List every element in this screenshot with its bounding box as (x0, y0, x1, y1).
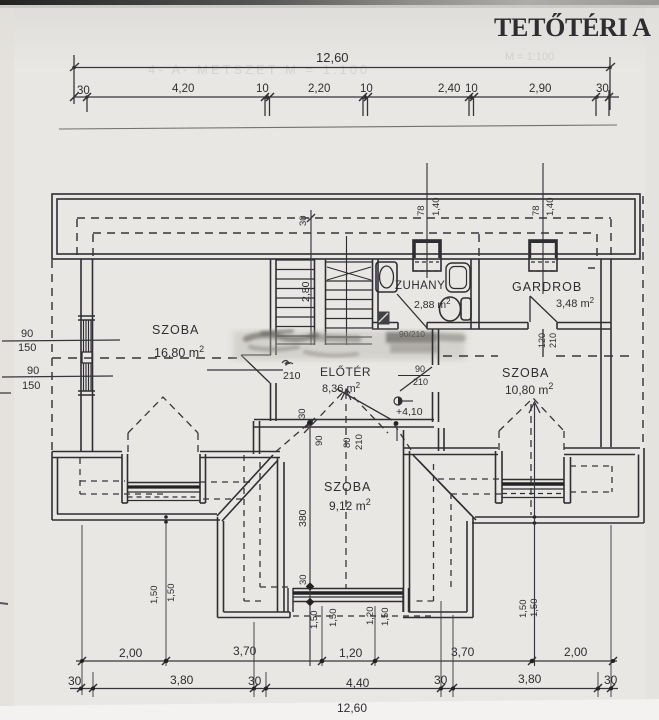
svg-text:1,50: 1,50 (149, 586, 160, 605)
sink (376, 262, 397, 292)
svg-text:90: 90 (21, 328, 33, 340)
floor drain square (378, 312, 390, 325)
svg-text:30: 30 (68, 674, 82, 688)
label 90/210 right door (413, 364, 428, 387)
svg-text:3,80: 3,80 (170, 673, 194, 687)
bottom dimension row 2 (70, 688, 618, 690)
svg-text:30: 30 (77, 85, 90, 97)
ghost erased text row (148, 51, 554, 77)
stray pencil line under dims (59, 125, 617, 129)
left dormer window stub left (122, 454, 128, 503)
top overall dimension line 12,60 (70, 55, 615, 110)
svg-text:1,40: 1,40 (545, 198, 556, 217)
svg-text:2,88 m2: 2,88 m2 (414, 297, 451, 311)
svg-text:78: 78 (416, 205, 427, 216)
right wing bottom wall (472, 517, 644, 523)
stairs center stringer (315, 259, 326, 345)
svg-text:210: 210 (283, 370, 301, 382)
bottom dimension row 1 (76, 660, 617, 662)
svg-text:80: 80 (342, 437, 353, 448)
center dormer window 440 hatched (293, 589, 433, 617)
center dormer bottom wall right (403, 612, 473, 618)
label 120/210 gardrob door (537, 333, 558, 348)
svg-text:2,00: 2,00 (119, 646, 143, 660)
room label ZUHANY 2,88 (395, 280, 451, 311)
svg-text:M = 1:100: M = 1:100 (505, 51, 554, 63)
svg-text:4,40: 4,40 (346, 676, 370, 690)
label 78/140 right roof window (531, 198, 556, 217)
smudge band over ELŐTÉR top (233, 331, 465, 360)
label 80 / 210 door SZOBA 9,12 (297, 408, 365, 450)
door SZOBA 16,80 lintel + leaf (241, 355, 271, 383)
svg-text:210: 210 (354, 434, 365, 450)
dimension line right with up arrow (529, 402, 540, 666)
ELŐTÉR bottom wall with door opening (254, 420, 434, 428)
corner wall below ELŐTÉR left (254, 421, 260, 454)
svg-text:30: 30 (604, 673, 618, 687)
dashed hip line from door right (394, 424, 413, 453)
stair dimension label 2,80 (300, 281, 312, 302)
stairs right flight treads (326, 236, 372, 345)
svg-text:2,00: 2,00 (564, 645, 588, 659)
center column right outer wall (467, 517, 473, 618)
label ~210 (283, 358, 301, 382)
small stray dash near gardrob (588, 267, 595, 269)
diagonal hip wall left (solid double) (217, 455, 278, 521)
left dormer window stub right (200, 454, 206, 503)
dashed eave lines right of right dormer (570, 466, 612, 492)
svg-text:2,80: 2,80 (300, 281, 312, 302)
diagonal hip wall right (solid double) (413, 455, 476, 520)
stair dimension tick 30 (298, 210, 315, 345)
top segment dimension line 30/4,20/10/2,20/10/2,40/10/2,90/30 (74, 90, 619, 116)
svg-text:+4,10: +4,10 (396, 406, 423, 418)
bathroom door leaf (397, 294, 427, 328)
svg-text:90: 90 (27, 365, 39, 377)
svg-text:30: 30 (297, 408, 308, 419)
left outer wall of SZOBA 16,80 with window (81, 259, 93, 452)
left wing top wall right part (200, 452, 280, 458)
svg-text:380: 380 (297, 509, 309, 527)
door leader line 210 (207, 369, 283, 371)
center dormer window stub left (288, 588, 293, 612)
junction dot ELŐTÉR wall (305, 418, 398, 441)
svg-text:78: 78 (531, 205, 542, 216)
window 90/150 in left wall (78, 316, 95, 395)
dashed headroom line SZOBA 16,80 (52, 357, 238, 359)
right dormer window stub left (496, 451, 503, 503)
svg-text:10: 10 (360, 83, 373, 95)
svg-text:30: 30 (434, 673, 448, 687)
wall under bath+gardrob with door gaps (372, 323, 611, 330)
right wing top wall right part (564, 448, 640, 455)
svg-text:8,36 m2: 8,36 m2 (322, 381, 361, 395)
ELŐTÉR squiggle mark (282, 361, 293, 366)
svg-text:ELŐTÉR: ELŐTÉR (320, 364, 371, 379)
center dormer inner left wall (278, 457, 285, 612)
svg-text:SZOBA: SZOBA (324, 480, 371, 494)
svg-text:TETŐTÉRI A: TETŐTÉRI A (494, 13, 651, 42)
height mark +4,10 (394, 397, 423, 418)
dashed roof peak over SZOBA 9,12 (304, 389, 388, 588)
rotated labels 1,50 right wing (518, 599, 540, 619)
svg-text:1,40: 1,40 (431, 198, 442, 217)
label 90/150 lower (22, 365, 40, 392)
dashed eave lines inside left wing (80, 458, 250, 499)
svg-text:SZOBA: SZOBA (152, 323, 199, 337)
center dormer bottom wall left (218, 612, 291, 618)
svg-text:9,12 m2: 9,12 m2 (329, 497, 371, 513)
label 78/140 left roof window (416, 198, 442, 217)
door SZOBA 10,80 leaf (398, 367, 432, 391)
extension line left wing outer (82, 524, 611, 697)
svg-text:30: 30 (596, 83, 609, 95)
left wing left wall (52, 452, 58, 521)
svg-text:90: 90 (314, 435, 325, 446)
svg-text:1,50: 1,50 (380, 608, 391, 627)
dashed headroom line SZOBA 10,80 (443, 355, 629, 357)
bottom white scan strip (0, 699, 659, 720)
svg-text:3,48 m2: 3,48 m2 (556, 296, 595, 310)
stairs direction cross (327, 267, 371, 280)
svg-text:1,20: 1,20 (365, 607, 376, 626)
right wing right wall (639, 448, 645, 523)
svg-text:2,90: 2,90 (529, 83, 551, 95)
svg-text:90: 90 (415, 364, 425, 374)
svg-text:150: 150 (22, 380, 40, 392)
svg-text:1,50: 1,50 (166, 584, 177, 603)
svg-text:GARDROB: GARDROB (512, 280, 582, 294)
dashed roof peak over left dormer (128, 397, 198, 452)
bottom overall label 12,60 (337, 701, 367, 715)
left wing bottom wall (52, 514, 220, 520)
dashed eave line right x643 (642, 196, 644, 445)
svg-text:10: 10 (256, 83, 269, 95)
svg-text:2,40: 2,40 (438, 83, 460, 95)
room label SZOBA 16,80 (152, 323, 204, 360)
dimension line 380 center with diamonds (309, 424, 311, 666)
divider wall ELŐTÉR / SZOBA 10,80 with door (433, 329, 439, 422)
svg-text:3,80: 3,80 (518, 672, 542, 686)
svg-text:SZOBA: SZOBA (502, 366, 549, 380)
left dormer window 150 hatched (128, 483, 201, 501)
svg-text:210: 210 (413, 377, 428, 387)
svg-text:150: 150 (18, 342, 36, 354)
leader line window dim lower (2, 376, 113, 377)
shower tray (446, 263, 470, 292)
label 90/150 upper (18, 328, 36, 354)
center dormer inner right wall (404, 430, 410, 612)
left wing top wall left part (52, 452, 122, 458)
dashed roof lines inside center column left (244, 455, 291, 601)
gardrob right wall (601, 259, 611, 447)
top dark scan edge (0, 0, 659, 5)
roof clearance dashed line 2 in band (93, 233, 597, 259)
roof window 1 (78/140) (413, 240, 441, 271)
svg-text:3,70: 3,70 (451, 645, 475, 659)
right dormer window stub right (564, 457, 571, 503)
svg-text:1,50: 1,50 (328, 609, 339, 628)
svg-text:12,60: 12,60 (316, 50, 349, 65)
room label SZOBA 10,80 (502, 366, 553, 397)
roof window dim vertical line left (426, 163, 428, 278)
svg-text:1,20: 1,20 (339, 646, 363, 660)
bathroom/gardrob divider wall (471, 259, 479, 329)
svg-text:10: 10 (465, 83, 478, 95)
svg-text:1,50: 1,50 (309, 611, 320, 630)
center dormer window stub right (403, 588, 409, 612)
svg-text:30: 30 (298, 574, 309, 585)
svg-text:3,70: 3,70 (233, 644, 257, 658)
dashed roof peak over right dormer (499, 398, 564, 515)
svg-text:1,50: 1,50 (518, 600, 529, 619)
top eaves band outer wall (52, 194, 640, 259)
svg-text:30: 30 (298, 215, 309, 226)
svg-text:120: 120 (537, 333, 547, 348)
room label ELŐTÉR 8,36 (320, 364, 371, 395)
roof clearance dashed line 1 in band (77, 218, 611, 258)
rotated labels 1,50 1,50 center window (309, 607, 391, 630)
svg-text:10,80 m2: 10,80 m2 (505, 381, 553, 397)
label 90/210 bathroom door (399, 329, 425, 339)
label 30 rotated above window (298, 574, 309, 585)
svg-text:30: 30 (248, 674, 262, 688)
room label SZOBA 9,12 (324, 480, 371, 513)
room label GARDROB 3,48 (512, 280, 595, 310)
toilet (440, 297, 472, 321)
dashed roof lines inside center column right (415, 464, 502, 601)
leader line window dim upper (2, 340, 120, 341)
dashed hip line from door left (272, 424, 308, 455)
corner wall below ELŐTÉR right (439, 428, 445, 451)
svg-text:4,20: 4,20 (172, 83, 194, 95)
label 380 rotated (297, 509, 309, 527)
door to SZOBA 9,12 leaf (337, 389, 392, 420)
right dormer window 150 hatched (502, 480, 564, 498)
rotated labels 1,50 left wing (149, 584, 177, 605)
svg-text:210: 210 (548, 333, 558, 348)
stray mark left edge (0, 393, 11, 604)
svg-text:2,20: 2,20 (308, 83, 330, 95)
gardrob door leaf triangle (530, 296, 557, 357)
dashed eave line left x52 (51, 260, 53, 450)
roof window 2 (78/140) (529, 240, 557, 271)
title TETŐTÉRI A (494, 13, 651, 42)
right wing top wall left part (403, 448, 498, 455)
stair-side wall of SZOBA 16,80 with door opening (271, 259, 277, 421)
center column left outer wall (218, 517, 224, 618)
svg-text:16,80 m2: 16,80 m2 (154, 344, 204, 360)
svg-text:12,60: 12,60 (337, 701, 367, 715)
svg-text:ZUHANY: ZUHANY (395, 280, 445, 292)
roof window dim vertical line right (542, 163, 544, 294)
bathroom left wall (373, 259, 379, 329)
stairs left flight treads (277, 260, 315, 344)
